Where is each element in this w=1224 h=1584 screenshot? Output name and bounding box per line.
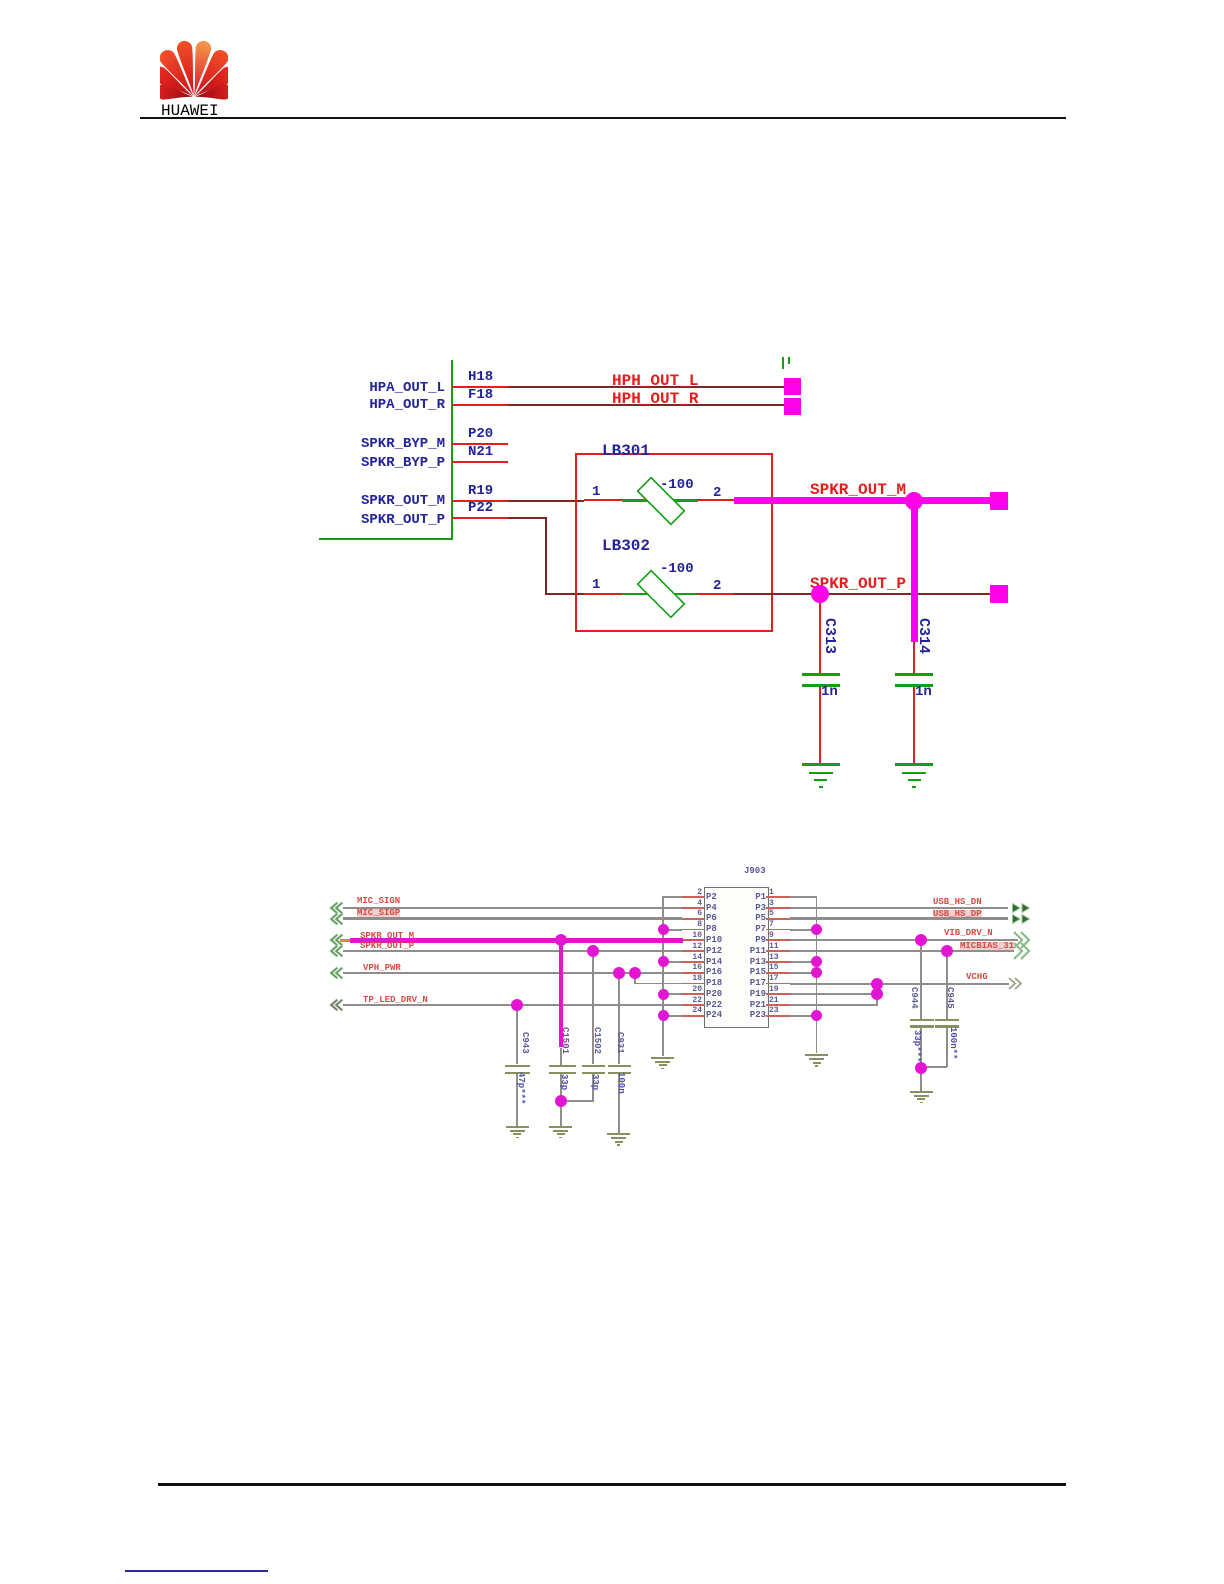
- capacitor C945: [946, 951, 948, 1019]
- off-page connector VIB_DRV_N: [1013, 931, 1032, 949]
- refdes C943: [520, 1032, 529, 1054]
- refdes C314: [916, 618, 931, 654]
- node SPKR_BYP_P label: [315, 456, 445, 470]
- net USB_HS_DP label: [933, 910, 982, 919]
- ferrite bead LB302 body: [622, 593, 698, 596]
- connector J903 left pin names P2-P24: [706, 893, 717, 902]
- junction C1501 / C1502 ground: [555, 1095, 567, 1107]
- node HPA_OUT_R label: [315, 398, 445, 412]
- junction VPH_PWR / C931: [613, 967, 625, 979]
- node HPA_OUT_L label: [315, 381, 445, 395]
- port HPH_OUT_R (magenta): [784, 398, 801, 415]
- ferrite bead LB301 refdes: [602, 444, 650, 459]
- wire VPH_PWR: [343, 972, 682, 974]
- wire pin 24 stub to bus: [663, 1015, 682, 1017]
- value 1n of C313: [821, 685, 838, 699]
- junction C944 / C945 ground: [915, 1062, 927, 1074]
- wire pin 20 stub to bus: [663, 993, 682, 995]
- junction pin 14 / ground bus: [658, 956, 669, 967]
- junction VCHG / pin 17: [871, 978, 883, 990]
- port SPKR_OUT_M (magenta): [990, 492, 1008, 510]
- port HPH_OUT_L (magenta): [784, 378, 801, 395]
- wire LB301 pin stubs: [584, 499, 622, 501]
- junction pin 8 / ground bus: [658, 924, 669, 935]
- wire SPKR_OUT_M (pin R19 to LB301): [452, 500, 508, 502]
- pin 1 of LB301: [592, 485, 600, 499]
- pin 1 of LB302: [592, 578, 600, 592]
- wire SPKR_OUT_P (bottom): [343, 950, 682, 952]
- net MIC_SIGN label: [357, 897, 400, 906]
- pin P22 label: [468, 501, 493, 515]
- wire C314 drop (thick magenta): [911, 500, 918, 642]
- wire MIC_SIGP: [343, 917, 682, 920]
- ground (C1501): [549, 1126, 572, 1128]
- wire VPH_PWR to pin 18: [634, 973, 636, 984]
- capacitor C1502: [592, 951, 594, 1064]
- junction SPKR_OUT_M / C1501: [555, 934, 567, 946]
- off-page connector SPKR_OUT_P: [327, 944, 344, 958]
- wire pin 7 stub to bus: [790, 929, 817, 931]
- port SPKR_OUT_P (magenta): [990, 585, 1008, 603]
- partial symbol (cropped, green): [782, 357, 785, 369]
- net SPKR_OUT_M label: [810, 483, 906, 498]
- wire HPH_OUT_R (pin F18 to port): [452, 404, 508, 406]
- ground (C944/C945): [910, 1091, 933, 1093]
- wire HPH_OUT_L (pin H18 to port): [452, 386, 508, 388]
- footer rule: [158, 1483, 1066, 1486]
- ground (right bus): [805, 1054, 828, 1056]
- junction pin 20 / ground bus: [658, 989, 669, 1000]
- junction pin 7 / right bus: [811, 924, 822, 935]
- net MICBIAS_31 label: [960, 942, 1014, 951]
- net SPKR_OUT_P label: [810, 577, 906, 592]
- capacitor C1501: [559, 940, 563, 1047]
- ground (C931): [607, 1133, 630, 1135]
- net SPKR_OUT_P label (bottom): [360, 942, 414, 951]
- junction SPKR_OUT_M / C314: [905, 492, 923, 510]
- value 1n of C314: [915, 685, 932, 699]
- refdes C313: [822, 618, 837, 654]
- connector J903 left pin numbers: [680, 889, 702, 897]
- net MIC_SIGP label: [357, 909, 400, 918]
- pin N21 stub: [452, 461, 508, 463]
- refdes C931: [615, 1032, 624, 1054]
- wire TP_LED_DRV_N: [343, 1004, 682, 1006]
- ground (left bus): [651, 1057, 674, 1059]
- pin 2 of LB302: [713, 579, 721, 593]
- pin F18 label: [468, 388, 493, 402]
- wire USB_HS_DP: [790, 917, 1008, 920]
- off-page connector USB_HS_DN: [1012, 903, 1032, 913]
- capacitor C931: [618, 973, 620, 1065]
- junction VIB_DRV_N / C944: [915, 934, 927, 946]
- wire SPKR_OUT_P (pin P22 to LB302): [452, 517, 508, 519]
- ground (C943): [506, 1126, 529, 1128]
- value -100 of LB301: [660, 478, 694, 492]
- value 100n** of C945: [948, 1027, 957, 1059]
- connector J903 right pin numbers: [769, 889, 774, 897]
- ferrite bead LB302 refdes: [602, 539, 650, 554]
- LB301/LB302 selection box: [575, 453, 773, 632]
- wire C1502 to C1501 ground: [561, 1100, 594, 1102]
- value 47p*** of C943: [516, 1072, 525, 1104]
- refdes C1501: [560, 1027, 569, 1054]
- off-page connector USB_HS_DP: [1012, 914, 1032, 924]
- connector J903 right pin names P1-P23: [736, 893, 766, 902]
- wire left ground bus: [662, 896, 664, 1056]
- junction pin 23 / right bus: [811, 1010, 822, 1021]
- wire pin 8 stub to bus: [663, 929, 682, 931]
- junction SPKR_OUT_P / C1502: [587, 945, 599, 957]
- wire pin 13 stub to bus: [790, 961, 817, 963]
- junction pin 15 / right bus: [811, 967, 822, 978]
- wire USB_HS_DN: [790, 907, 1008, 909]
- junction SPKR_OUT_P / C313: [811, 585, 829, 603]
- wire LB302 pin stubs: [584, 593, 622, 595]
- junction MICBIAS_31 / C945: [941, 945, 953, 957]
- header rule: [140, 117, 1066, 119]
- value 33p of C1501: [559, 1074, 568, 1090]
- refdes C1502: [592, 1027, 601, 1054]
- junction pin 24 / ground bus: [658, 1010, 669, 1021]
- pin P20 stub: [452, 443, 508, 445]
- net VIB_DRV_N label: [944, 929, 993, 938]
- value 100n of C931: [616, 1072, 625, 1094]
- junction VCHG / pin 19: [871, 988, 883, 1000]
- wire SPKR_OUT_P: [734, 593, 990, 595]
- Huawei logo flower: [160, 40, 228, 104]
- node SPKR_OUT_P label: [315, 513, 445, 527]
- wire VIB_DRV_N: [790, 939, 1018, 941]
- pin H18 label: [468, 370, 493, 384]
- node SPKR_OUT_M label: [315, 494, 445, 508]
- connector J903 left pin stubs: [682, 896, 704, 898]
- ground (C314): [895, 763, 933, 765]
- net VCHG label: [966, 973, 988, 982]
- connector J903 right pin stubs: [766, 896, 790, 898]
- connector J903 refdes: [744, 867, 766, 876]
- wire SPKR_OUT_M (bottom, magenta): [340, 939, 351, 941]
- net USB_HS_DN label: [933, 898, 982, 907]
- wire pin 15 stub to bus: [790, 972, 817, 974]
- net VPH_PWR label: [363, 964, 401, 973]
- junction VPH_PWR / pin 18 branch: [629, 967, 641, 979]
- net TP_LED_DRV_N label: [363, 996, 428, 1005]
- capacitor C313: [819, 602, 821, 673]
- capacitor C943: [516, 1005, 518, 1064]
- refdes C945: [945, 987, 954, 1009]
- pin N21 label: [468, 445, 493, 459]
- wire MIC_SIGN: [343, 907, 682, 909]
- capacitor C944: [920, 940, 922, 1018]
- HUAWEI wordmark: [161, 102, 219, 120]
- wire pin 23 stub to bus: [790, 1015, 817, 1017]
- pin 2 of LB301: [713, 486, 721, 500]
- connector J903 body: [704, 887, 769, 1029]
- off-page connector SPKR_OUT_M: [327, 933, 344, 947]
- value 33p*** of C944: [912, 1030, 921, 1062]
- net SPKR_OUT_M label (bottom): [360, 932, 414, 941]
- off-page connector VCHG: [1008, 977, 1023, 990]
- wire SPKR_OUT_M (thick magenta): [734, 497, 990, 504]
- net HPH_OUT_L label: [612, 374, 698, 389]
- pin R19 label: [468, 484, 493, 498]
- ferrite bead LB301 body: [622, 499, 698, 502]
- footnote rule (blue): [125, 1570, 268, 1572]
- wire right ground bus: [816, 896, 818, 1053]
- junction TP_LED_DRV_N / C943: [511, 999, 523, 1011]
- pin P20 label: [468, 427, 493, 441]
- wire VCHG (pins 17/19/21): [790, 983, 877, 985]
- refdes C944: [909, 987, 918, 1009]
- wire pin 14 stub to bus: [663, 961, 682, 963]
- net HPH_OUT_R label: [612, 392, 698, 407]
- wire MICBIAS_31: [790, 950, 1014, 952]
- off-page connector MICBIAS_31: [1013, 942, 1032, 960]
- junction pin 13 / right bus: [811, 956, 822, 967]
- value 33p of C1502: [590, 1074, 599, 1090]
- capacitor C314: [913, 642, 915, 673]
- node SPKR_BYP_M label: [315, 437, 445, 451]
- off-page connector MIC_SIGN: [327, 901, 344, 915]
- off-page connector TP_LED_DRV_N: [327, 998, 344, 1012]
- ground (C313): [802, 763, 840, 765]
- value -100 of LB302: [660, 562, 694, 576]
- IC outline (partial, green): [451, 360, 453, 539]
- off-page connector VPH_PWR: [327, 966, 344, 980]
- off-page connector MIC_SIGP: [327, 912, 344, 926]
